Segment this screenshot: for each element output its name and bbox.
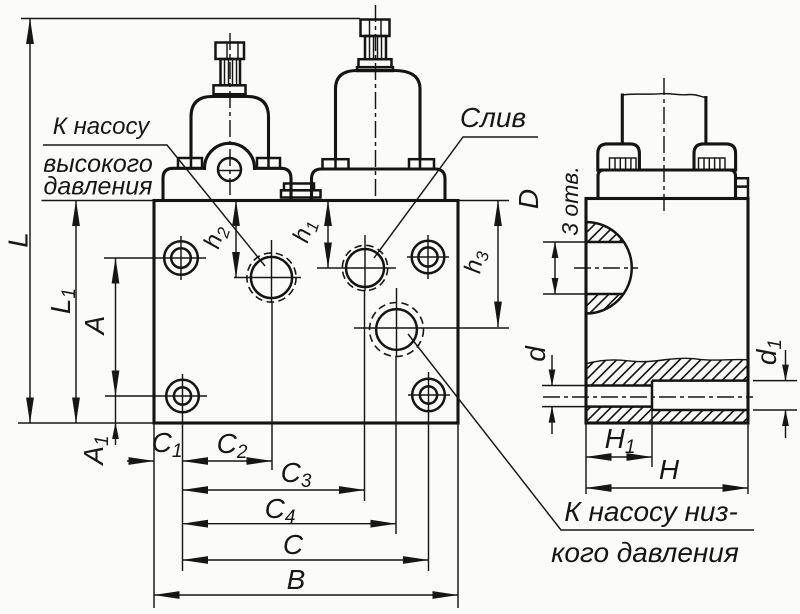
leader to high pressure pump (43, 145, 265, 266)
svg-text:Слив: Слив (460, 102, 526, 133)
mounting hole bottom-right (408, 372, 450, 411)
side hole D bore edges (586, 242, 623, 294)
plug between valves (281, 184, 321, 198)
svg-text:L: L (3, 232, 34, 248)
extension line port cl drain (364, 291, 366, 501)
side view block body (586, 199, 748, 424)
valve V1 centerline (229, 33, 231, 200)
valve V2 centerline (375, 5, 377, 200)
extension line block top left (42, 200, 155, 202)
svg-text:кого давления: кого давления (551, 537, 739, 568)
extension line block left edge bottom (153, 423, 155, 608)
svg-text:давления: давления (44, 173, 153, 201)
svg-text:A: A (79, 316, 110, 337)
extension lines D (543, 242, 586, 294)
side hole D spherical end arc (586, 222, 632, 314)
leader drain (374, 137, 538, 258)
mounting hole bottom-left (105, 374, 207, 412)
dimension L1 (45, 201, 80, 424)
valve V2 locknut collar (357, 59, 393, 71)
dimension h2 (199, 201, 236, 278)
side channel break line (wavy) (587, 358, 748, 363)
label drain (460, 102, 526, 133)
dimension L (3, 19, 34, 424)
extension line block top right (458, 200, 509, 202)
valve V1 threaded stem (221, 59, 241, 85)
label to high pressure pump (43, 113, 153, 201)
extension line block right edge bottom (457, 423, 459, 608)
svg-text:d: d (520, 345, 551, 362)
side channel hatch upper band (587, 358, 748, 385)
dimension d (520, 345, 552, 434)
side view top-right tab (736, 178, 749, 198)
svg-text:3 отв.: 3 отв. (557, 166, 583, 236)
dimension B (154, 564, 458, 595)
extension line port cl lower-right (395, 356, 397, 534)
port to high-pressure pump (left port) (234, 240, 301, 302)
side view valve flange (598, 170, 736, 199)
dimension d1 (751, 339, 786, 438)
side channel counterbore step (651, 381, 654, 410)
mounting hole top-right (407, 235, 449, 279)
svg-text:C: C (283, 529, 304, 560)
extension lines d (542, 386, 586, 407)
valve V1 spring bell (191, 97, 269, 169)
side view bolt nut left (610, 158, 637, 170)
side view bolt housing left (598, 144, 640, 170)
side channel hatch lower band (586, 407, 748, 423)
mounting hole top-left (104, 236, 206, 280)
extension line port cl left (271, 302, 273, 470)
valve V2 spring bell (336, 71, 421, 170)
extension line hole cl bottom-left (182, 412, 184, 571)
valve V1 flange bolts (178, 158, 280, 168)
front view valve block body (154, 201, 458, 424)
svg-text:К насосу: К насосу (53, 113, 151, 140)
extension line H right (747, 423, 749, 494)
valve V1 dome boss (205, 143, 255, 168)
dimension C3 (183, 457, 365, 492)
side hole D centerline (574, 267, 638, 269)
valve V1 base flange (163, 168, 291, 198)
side hole D hatch lower (586, 294, 623, 314)
leader to low pressure pump (408, 334, 754, 530)
port to low-pressure pump (lower right) (354, 288, 509, 357)
side view bolt nut right (699, 158, 726, 170)
dimension A1 (78, 396, 116, 467)
drain port (center) (317, 235, 396, 291)
valve V2 flange bolts (323, 159, 435, 169)
dimension h3 (459, 201, 498, 328)
side channel centerline (543, 396, 753, 398)
svg-text:К насосу низ-: К насосу низ- (564, 496, 738, 527)
dimension H1 (586, 423, 652, 458)
extension line hole cl bottom-right (428, 411, 430, 571)
svg-text:H: H (659, 454, 680, 485)
dimension h1 (288, 201, 328, 269)
valve V2 threaded stem (365, 36, 386, 59)
dimension C1 (127, 427, 182, 462)
extension line H1 right (651, 410, 653, 467)
side view valve centerline (663, 78, 665, 215)
side view bolt housing right (694, 144, 736, 170)
valve V1 dome hole (218, 158, 242, 181)
dimension C2 (183, 428, 273, 463)
svg-text:D: D (513, 189, 544, 209)
side channel small bore edges (586, 386, 652, 407)
valve V1 adjusting nut (216, 43, 245, 60)
label to low pressure pump (551, 496, 739, 568)
dimension C (183, 529, 429, 560)
dimension A (79, 258, 116, 396)
valve V2 base flange (312, 169, 446, 200)
extension line H left (585, 423, 587, 494)
dimension H (586, 454, 748, 488)
extension line baseline left (18, 422, 154, 424)
side channel large bore edges (652, 381, 748, 410)
dimension C4 (183, 493, 397, 528)
label 3 holes (557, 166, 583, 236)
side view valve body with break line (622, 94, 706, 144)
svg-text:B: B (287, 564, 306, 595)
dimension D (513, 189, 555, 294)
side hole D hatch upper (586, 222, 623, 242)
extension line top (overall height) (21, 18, 360, 20)
extension lines d1 (753, 381, 797, 410)
valve V2 adjusting nut (361, 20, 390, 37)
valve V1 locknut collar (214, 85, 246, 94)
